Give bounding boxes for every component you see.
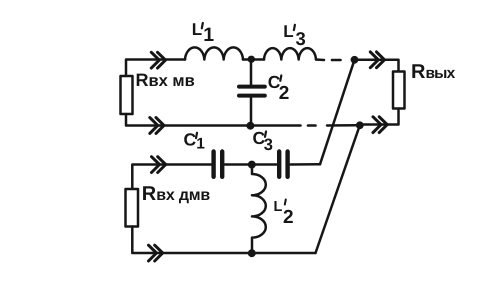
wire node A to L'3 [252, 58, 265, 61]
svg-text:1: 1 [196, 136, 205, 153]
svg-text:L: L [274, 199, 283, 215]
wire top lead of Rвх мв [126, 60, 185, 77]
wire diagonal C'3 to node B [320, 60, 355, 165]
wire node E to C'3 [252, 163, 277, 166]
capacitor C'1 [211, 152, 215, 177]
node E (C1-C3-L2 junction) [248, 161, 256, 169]
node B (top right) [351, 56, 359, 64]
svg-text:L: L [283, 22, 293, 41]
node F (L2 bottom junction) [248, 249, 256, 257]
svg-text:3: 3 [296, 28, 306, 49]
arrow chevron B (lower wire of top section) [150, 118, 164, 134]
svg-text:Rвх дмв: Rвх дмв [142, 183, 211, 205]
inductor L'1 [185, 47, 243, 59]
label L'1 [192, 20, 214, 46]
wire top lead of Rвх дмв [132, 165, 211, 190]
svg-text:Rвх мв: Rвх мв [136, 70, 195, 90]
inductor L'3 [264, 48, 316, 59]
wire solid segment to node C [327, 124, 357, 127]
wire C'2 top lead [250, 60, 253, 85]
wire C'3 output stub [290, 163, 320, 166]
capacitor C'2 [239, 85, 265, 89]
label C'1 [184, 130, 206, 153]
label C'2 [268, 72, 290, 104]
wire L'3 stub [316, 58, 324, 61]
resistor Rвх мв [121, 76, 133, 114]
wire dash (bottom) [308, 124, 316, 127]
svg-text:2: 2 [283, 207, 294, 228]
wire node F to right [252, 252, 316, 255]
arrow chevron A (top wire, МВ input) [151, 52, 165, 68]
wire dash (top) [332, 59, 341, 62]
label C'3 [253, 128, 273, 154]
arrow chevron C (top wire of ДМВ section) [152, 157, 166, 173]
wire Rвых bottom to node C [360, 109, 399, 125]
arrow chevron D (bottom wire, ДМВ) [149, 245, 163, 261]
svg-text:C: C [184, 130, 197, 150]
resistor Rвых [393, 72, 405, 109]
label L'3 [283, 22, 306, 49]
wire node B to Rвых top [355, 60, 399, 72]
node C (bottom right) [356, 121, 364, 129]
node D (C2 bottom junction) [246, 122, 254, 130]
wire C'1 to node E [225, 163, 252, 166]
label L'2 [274, 199, 294, 228]
arrow chevron F (output bottom) [373, 117, 387, 133]
svg-text:L: L [192, 20, 202, 39]
svg-text:1: 1 [203, 24, 214, 46]
wire diagonal bottom to node C [316, 125, 360, 253]
svg-text:2: 2 [279, 83, 290, 104]
wire bottom lead of Rвх дмв [132, 227, 252, 254]
inductor L'2 [252, 165, 266, 254]
svg-text:Rвых: Rвых [411, 61, 456, 83]
wire node D to right [251, 124, 301, 127]
capacitor C'3 [277, 152, 281, 177]
wire L'1 to node A [243, 58, 252, 61]
svg-text:3: 3 [264, 136, 273, 154]
wire C'2 bottom lead [250, 98, 253, 126]
node A (L1-L3-C2 junction) [248, 56, 255, 63]
arrow chevron E (output top) [370, 52, 384, 68]
wire bottom lead of Rвх мв [126, 114, 251, 126]
resistor Rвх дмв [126, 189, 139, 227]
